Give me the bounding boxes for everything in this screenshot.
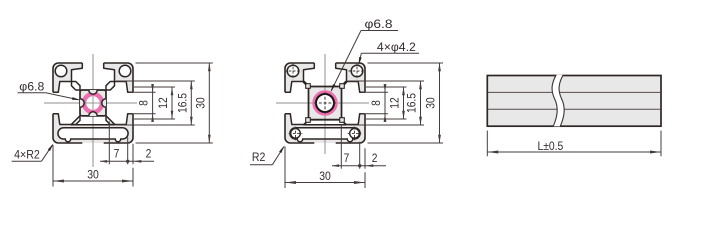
extension lines bottom: [108, 121, 110, 164]
dim 16.5: [190, 81, 192, 125]
dim 16.5: [420, 81, 422, 125]
svg-text:7: 7: [114, 147, 120, 161]
dim 7 and 2: [332, 165, 386, 167]
bottom phi4.2 holes in cavity: [291, 129, 301, 139]
centerlines: [276, 102, 369, 104]
left cross-section view: [44, 54, 137, 167]
svg-text:7: 7: [344, 151, 350, 165]
svg-text:30: 30: [193, 97, 207, 109]
dim 8: [384, 84, 386, 122]
svg-text:16.5: 16.5: [175, 93, 189, 113]
svg-text:8: 8: [137, 100, 151, 106]
profile outline strokes: [104, 63, 133, 92]
dim 12: [171, 87, 173, 119]
dim 30 vertical: [208, 63, 210, 143]
dim L+-0.5: [486, 131, 488, 157]
slot cavities (white): [304, 63, 347, 87]
svg-text:12: 12: [388, 97, 402, 109]
svg-text:2: 2: [146, 147, 152, 161]
profile outline strokes: [336, 63, 365, 92]
svg-text:30: 30: [424, 97, 438, 109]
dim 30 bottom: [52, 145, 54, 187]
center tap hole phi6.8 pink, ribbed: [84, 94, 102, 112]
svg-text:16.5: 16.5: [405, 93, 419, 113]
svg-text:8: 8: [369, 100, 383, 106]
svg-text:2: 2: [372, 151, 378, 165]
break symbol: [552, 75, 564, 127]
dim 12: [403, 87, 405, 119]
svg-text:30: 30: [319, 169, 331, 183]
bar inner lines: [488, 91, 660, 93]
dim 7 and 2: [100, 160, 154, 162]
corner holes: [55, 65, 67, 77]
dim 8: [152, 84, 154, 122]
side view bar: [487, 76, 661, 127]
svg-text:φ6.8: φ6.8: [365, 17, 393, 31]
slot cavities (white): [72, 63, 115, 90]
middle cross-section view: [276, 54, 369, 154]
svg-text:12: 12: [156, 97, 170, 109]
profile material fill: [285, 63, 365, 143]
extension lines bottom: [340, 126, 342, 169]
extension lines right side: [129, 91, 156, 93]
corner holes: [287, 65, 299, 77]
profile material fill: [53, 63, 133, 143]
extension lines right side: [361, 91, 388, 93]
dim 30 vertical: [439, 63, 441, 143]
svg-text:φ6.8: φ6.8: [19, 79, 44, 93]
center hole phi6.8 pink: [309, 87, 342, 120]
centerlines: [44, 102, 137, 104]
svg-text:L±0.5: L±0.5: [537, 139, 563, 153]
dim 30 bottom: [284, 147, 286, 189]
svg-text:30: 30: [87, 167, 99, 181]
svg-text:R2: R2: [252, 150, 266, 164]
svg-text:4×R2: 4×R2: [14, 148, 40, 162]
svg-text:4×φ4.2: 4×φ4.2: [377, 40, 416, 54]
